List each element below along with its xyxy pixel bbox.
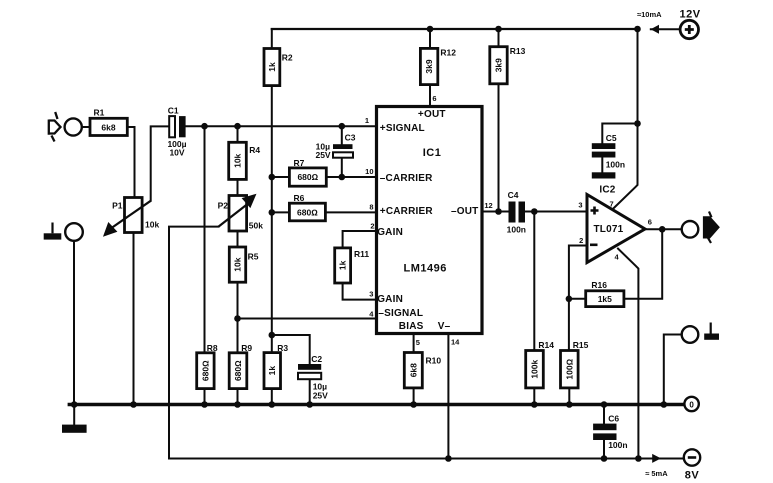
0V terminal circle xyxy=(684,397,698,411)
wire P1 wiper to C1 xyxy=(151,126,169,200)
svg-text:10k: 10k xyxy=(233,153,243,167)
svg-text:R6: R6 xyxy=(294,193,305,203)
input terminal circle xyxy=(65,118,82,135)
wire R13 top to rail xyxy=(498,29,500,47)
potentiometer P2 wiper arrow xyxy=(219,195,256,227)
wire C3 top stem xyxy=(341,126,343,144)
svg-text:R14: R14 xyxy=(538,340,554,350)
junction C3 top node xyxy=(339,123,346,130)
svg-text:TL071: TL071 xyxy=(594,224,624,235)
junction R3 C2 node xyxy=(269,332,276,339)
wire IC1 pin 12 to C4 xyxy=(482,211,509,213)
svg-text:12: 12 xyxy=(484,201,492,210)
junction R7 left node xyxy=(269,174,276,181)
junction 0V rail left end xyxy=(71,401,78,408)
svg-text:1k: 1k xyxy=(267,366,277,376)
svg-text:P1: P1 xyxy=(112,201,123,211)
svg-text:8V: 8V xyxy=(685,470,700,482)
input signal arrow symbol xyxy=(49,112,61,142)
svg-text:1: 1 xyxy=(365,116,369,125)
svg-text:R8: R8 xyxy=(207,343,218,353)
wire 0V ground rail xyxy=(69,403,684,406)
capacitor C2 10u 25V electrolytic xyxy=(298,364,321,379)
ground terminal circle right xyxy=(682,326,699,343)
wire op-amp output to terminal xyxy=(645,228,682,230)
wire ground terminal to 0V rail xyxy=(664,335,682,405)
arrowhead on 12V feed xyxy=(651,25,659,34)
output terminal circle xyxy=(682,221,699,238)
svg-text:3k9: 3k9 xyxy=(424,59,434,73)
resistor R11 1k xyxy=(335,248,351,283)
capacitor C1 100u 10V electrolytic xyxy=(169,116,185,137)
svg-text:GAIN: GAIN xyxy=(377,294,403,305)
svg-text:P2: P2 xyxy=(218,201,229,211)
resistor R15 100 ohm xyxy=(561,351,579,388)
resistor R2 1k xyxy=(264,49,280,86)
junction 0V at C2 xyxy=(306,401,313,408)
wire R11 to IC1 pin 3 xyxy=(343,283,377,300)
svg-text:+SIGNAL: +SIGNAL xyxy=(380,123,425,134)
capacitor C5 100n xyxy=(592,143,616,157)
junction output node xyxy=(659,226,666,233)
8V supply terminal xyxy=(684,449,700,465)
svg-text:8: 8 xyxy=(369,203,373,212)
svg-text:R15: R15 xyxy=(573,340,589,350)
IC2 plus input marker xyxy=(591,207,599,215)
wire R4 bottom to P2 top xyxy=(237,179,239,195)
resistor R4 10k xyxy=(229,142,247,179)
ground symbol at input xyxy=(44,223,62,240)
wire V+ column from rail to IC2 pin 7 xyxy=(613,29,638,209)
resistor R3 1k xyxy=(264,353,281,389)
capacitor C6 100n xyxy=(593,424,616,440)
junction R16 left node xyxy=(566,296,573,303)
svg-text:C1: C1 xyxy=(168,106,179,116)
svg-text:100Ω: 100Ω xyxy=(564,358,574,379)
wire IC2 pin 2 loop to R15 xyxy=(569,246,587,351)
svg-text:IC2: IC2 xyxy=(599,185,615,196)
wire R3 bottom to 0V rail xyxy=(271,389,273,405)
svg-text:GAIN: GAIN xyxy=(377,227,403,238)
wire C3 bottom stem xyxy=(341,158,343,177)
svg-text:10V: 10V xyxy=(169,148,184,158)
wire input to R1 xyxy=(82,126,90,128)
svg-text:10: 10 xyxy=(365,167,373,176)
svg-text:7: 7 xyxy=(610,199,614,208)
wire node to C2 branch xyxy=(272,335,310,364)
svg-text:2: 2 xyxy=(579,236,583,245)
wire C1 to IC1 pin 1 row xyxy=(186,125,377,127)
svg-text:R11: R11 xyxy=(354,249,369,259)
wire IC1 pin 4 row xyxy=(238,318,377,320)
svg-text:0: 0 xyxy=(689,400,694,409)
svg-text:V–: V– xyxy=(438,321,451,332)
wire C4 to IC2 pin 3 xyxy=(525,211,587,213)
chassis ground bottom left xyxy=(62,425,87,433)
capacitor C3 10u 25V electrolytic xyxy=(333,144,353,158)
svg-text:≈10mA: ≈10mA xyxy=(637,10,662,19)
svg-text:C4: C4 xyxy=(508,190,519,200)
wire R7 row to IC1 pin 10 xyxy=(272,176,377,178)
svg-text:680Ω: 680Ω xyxy=(233,360,243,381)
wire P2 bottom to R5 xyxy=(237,231,239,247)
junction 0V at R14 xyxy=(531,401,538,408)
svg-text:R9: R9 xyxy=(241,343,252,353)
junction C3 bottom node xyxy=(339,174,346,181)
svg-text:IC1: IC1 xyxy=(423,147,442,159)
wire signal node down to R4 xyxy=(237,126,239,142)
resistor R16 1k5 xyxy=(586,291,624,307)
svg-text:5: 5 xyxy=(416,338,420,347)
svg-text:100n: 100n xyxy=(606,159,625,169)
resistor R13 3k9 xyxy=(490,47,507,84)
wire IC1 pin 2 to R11 xyxy=(343,231,377,248)
junction C4 right node xyxy=(531,208,538,215)
wire R6 row to IC1 pin 8 xyxy=(272,211,377,213)
op-amp IC1 LM1496 box xyxy=(377,107,483,334)
svg-text:C6: C6 xyxy=(608,414,619,424)
junction 0V at R15 xyxy=(566,401,573,408)
svg-text:R12: R12 xyxy=(440,47,456,57)
svg-text:–OUT: –OUT xyxy=(451,206,478,217)
svg-text:R2: R2 xyxy=(282,52,293,62)
potentiometer P1 wiper arrow xyxy=(104,201,151,236)
resistor R7 680 ohm xyxy=(289,168,326,186)
resistor R6 680 ohm xyxy=(289,203,325,221)
potentiometer P1 10k body xyxy=(125,198,143,233)
svg-text:LM1496: LM1496 xyxy=(404,263,447,275)
svg-text:3k9: 3k9 xyxy=(494,58,504,72)
wire C5 to ground stem xyxy=(601,157,603,172)
junction signal node at R4 xyxy=(234,123,241,130)
wire R14 bottom to 0V rail xyxy=(533,388,535,405)
svg-text:680Ω: 680Ω xyxy=(297,172,318,182)
op-amp U-IC2 TL071 triangle xyxy=(587,195,645,263)
12V supply terminal xyxy=(680,20,698,38)
svg-text:–CARRIER: –CARRIER xyxy=(380,173,433,184)
wire R15 bottom to 0V rail xyxy=(568,388,570,405)
wire R9 bottom to 0V rail xyxy=(237,389,239,405)
junction pin 4 tap xyxy=(234,315,241,322)
svg-text:10k: 10k xyxy=(145,219,159,229)
svg-text:6k8: 6k8 xyxy=(408,363,418,377)
wire IC1 pin 14 to negative rail xyxy=(447,334,449,459)
resistor R9 680 ohm xyxy=(229,353,247,389)
svg-text:BIAS: BIAS xyxy=(399,321,424,332)
ground bar for C5 xyxy=(592,172,616,178)
junction R6 left node xyxy=(269,209,276,216)
wire C5 branch from V+ xyxy=(602,124,637,144)
svg-text:25V: 25V xyxy=(315,150,330,160)
wire R16 right to output node xyxy=(624,229,662,298)
wire input ground terminal to 0V rail xyxy=(73,241,75,405)
input ground terminal circle xyxy=(65,223,83,241)
junction negative rail at IC2 xyxy=(635,455,642,462)
arrowhead on 8V rail xyxy=(652,454,661,463)
svg-text:6: 6 xyxy=(648,217,652,226)
svg-text:100n: 100n xyxy=(608,440,627,450)
wire R16 left to pin2 column xyxy=(569,298,586,300)
svg-text:R3: R3 xyxy=(277,343,288,353)
wire IC2 pin 4 to negative rail xyxy=(618,249,638,459)
svg-text:10k: 10k xyxy=(233,257,243,271)
svg-text:100k: 100k xyxy=(530,359,540,378)
junction 0V at R9 xyxy=(234,401,241,408)
svg-text:C5: C5 xyxy=(606,133,617,143)
svg-text:C2: C2 xyxy=(311,354,322,364)
svg-text:6: 6 xyxy=(432,94,436,103)
wire R5 bottom to R9 top xyxy=(237,282,239,353)
svg-text:C3: C3 xyxy=(345,133,356,143)
junction C5 tap on V+ xyxy=(634,120,641,127)
svg-text:+CARRIER: +CARRIER xyxy=(380,206,434,217)
junction negative rail at C6 xyxy=(601,455,608,462)
svg-text:R13: R13 xyxy=(510,46,526,56)
svg-text:1k5: 1k5 xyxy=(598,294,612,304)
wire R13 bottom to pin 12 row xyxy=(498,84,500,212)
junction rail at R13 xyxy=(495,26,502,33)
junction signal node at C1 xyxy=(201,123,208,130)
resistor R5 10k xyxy=(229,247,245,282)
svg-text:R16: R16 xyxy=(591,280,607,290)
svg-text:25V: 25V xyxy=(313,390,328,400)
svg-text:6k8: 6k8 xyxy=(101,122,115,132)
resistor R14 100k xyxy=(526,351,544,388)
svg-text:12V: 12V xyxy=(680,8,701,20)
wire 12V terminal feed xyxy=(651,28,680,30)
wire C6 top stem xyxy=(603,405,605,424)
wire node C4 down to R14 xyxy=(533,212,535,351)
junction 0V at R3 xyxy=(269,401,276,408)
svg-text:R1: R1 xyxy=(94,107,105,117)
resistor R1 6k8 xyxy=(90,118,127,135)
svg-text:R10: R10 xyxy=(426,355,442,365)
IC2 minus input marker xyxy=(590,244,598,247)
svg-text:680Ω: 680Ω xyxy=(297,207,318,217)
svg-text:3: 3 xyxy=(578,200,582,209)
output arrow symbol xyxy=(704,217,718,237)
wire IC1 pin 6 to R12 xyxy=(429,29,431,107)
svg-text:2: 2 xyxy=(370,222,374,231)
wire C6 bottom stem xyxy=(603,440,605,459)
svg-text:50k: 50k xyxy=(249,221,263,231)
junction pin 12 at R13 xyxy=(495,208,502,215)
svg-text:R5: R5 xyxy=(248,251,259,261)
wire top supply rail +12V xyxy=(272,28,638,30)
wire R10 bottom to 0V rail xyxy=(413,388,415,405)
junction rail at R12 xyxy=(427,26,434,33)
wire node to R3 xyxy=(271,335,273,353)
junction 0V at R10 xyxy=(410,401,417,408)
svg-text:1k: 1k xyxy=(338,260,348,270)
wire P1 bottom to 0V rail xyxy=(133,233,135,405)
wire R2 top to rail xyxy=(271,29,273,49)
wire R1 to P1 top xyxy=(127,127,134,198)
wire P2 wiper to negative rail xyxy=(169,227,219,459)
junction 0V at R8 xyxy=(201,401,208,408)
wire IC1 pin 5 to R10 xyxy=(413,334,415,353)
svg-text:–SIGNAL: –SIGNAL xyxy=(378,308,423,319)
junction 0V at C6 xyxy=(601,401,608,408)
svg-text:1k: 1k xyxy=(267,62,277,72)
wire node C1 down to R8 xyxy=(204,126,206,353)
junction 0V at P1 xyxy=(130,401,137,408)
svg-text:3: 3 xyxy=(369,290,373,299)
wire negative supply rail 8V xyxy=(169,458,684,460)
svg-text:+OUT: +OUT xyxy=(418,109,446,120)
junction 0V at ground terminal xyxy=(661,401,668,408)
resistor R12 3k9 xyxy=(420,48,437,84)
junction negative rail at pin 14 xyxy=(445,455,452,462)
wire 0V rail to chassis ground xyxy=(73,405,75,425)
wire R8 bottom to 0V rail xyxy=(204,389,206,405)
wire R2 bottom carrier bias column xyxy=(271,86,273,335)
svg-text:680Ω: 680Ω xyxy=(200,360,210,381)
svg-text:14: 14 xyxy=(451,338,460,347)
ground symbol right xyxy=(704,323,719,340)
wire C2 bottom to 0V rail xyxy=(309,379,311,404)
junction rail at V+ column xyxy=(634,26,641,33)
potentiometer P2 50k body xyxy=(229,196,247,232)
svg-text:R4: R4 xyxy=(249,145,260,155)
capacitor C4 100n xyxy=(509,202,526,223)
svg-text:100n: 100n xyxy=(507,224,526,234)
svg-text:R7: R7 xyxy=(294,158,305,168)
resistor R10 6k8 xyxy=(404,353,422,388)
resistor R8 680 ohm xyxy=(197,353,214,389)
svg-text:≈ 5mA: ≈ 5mA xyxy=(645,469,668,478)
